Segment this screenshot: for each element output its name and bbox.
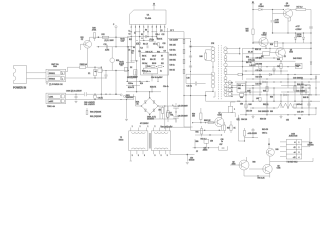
wire Q6 emitter <box>87 48 89 67</box>
wire selector to bridge <box>125 94 134 96</box>
wire startup low <box>97 46 135 48</box>
svg-text:B1: B1 <box>252 2 254 4</box>
svg-text:TB61 4A: TB61 4A <box>47 105 55 108</box>
wire bias v <box>194 139 196 148</box>
svg-text:+C17: +C17 <box>296 26 300 28</box>
diode D49 <box>305 90 307 92</box>
capacitor CY pair <box>94 94 95 95</box>
svg-text:C55: C55 <box>286 119 289 121</box>
svg-text:C13: C13 <box>163 43 166 45</box>
resistor R60 v <box>243 131 245 137</box>
svg-text:C32 10n: C32 10n <box>170 49 176 51</box>
svg-text:Q9: Q9 <box>277 165 279 167</box>
wire v253b <box>252 131 254 138</box>
svg-text:1u: 1u <box>132 53 134 55</box>
svg-text:R33 56K: R33 56K <box>170 59 177 61</box>
svg-text:1: 1 <box>140 126 141 128</box>
diode D46 <box>310 62 312 64</box>
svg-text:C8: C8 <box>128 50 130 52</box>
dots bias <box>194 147 195 148</box>
wire bottom rail <box>244 175 270 177</box>
svg-text:U4: U4 <box>302 87 304 89</box>
wire T1 tap3 <box>186 73 213 75</box>
wire line from inlet <box>27 72 47 74</box>
svg-text:3B3: 3B3 <box>270 111 273 113</box>
node top <box>252 9 253 10</box>
svg-text:C33 1n: C33 1n <box>170 64 175 66</box>
svg-text:R17 2.2: R17 2.2 <box>297 7 303 9</box>
svg-text:Q5: Q5 <box>290 49 292 51</box>
pin stubs bottom <box>130 25 132 29</box>
svg-text:T M SWD VSLI: T M SWD VSLI <box>287 162 298 164</box>
svg-text:6: 6 <box>139 26 140 28</box>
svg-text:4.7/50V: 4.7/50V <box>296 29 303 31</box>
svg-text:wd62: wd62 <box>49 101 54 103</box>
svg-text:1N4148: 1N4148 <box>189 159 195 161</box>
transistor Q7 <box>215 117 224 126</box>
wire drive bottom <box>195 134 222 136</box>
resistor R15 inline <box>252 29 254 35</box>
wire sec tap4 <box>226 66 249 68</box>
connector CN2 table <box>286 140 302 160</box>
svg-text:C5027: C5027 <box>262 35 267 37</box>
wire Q3 collector <box>289 9 291 11</box>
transistor Q6 <box>84 40 92 48</box>
svg-text:Q8: Q8 <box>232 162 234 164</box>
line filter FL601 <box>46 69 66 82</box>
rail right top <box>310 10 312 61</box>
svg-text:330: 330 <box>192 116 195 118</box>
svg-text:R22: R22 <box>102 34 105 36</box>
svg-text:C54 100: C54 100 <box>241 119 247 121</box>
diode D47 <box>315 77 317 79</box>
svg-text:2: 2 <box>161 126 162 128</box>
wire fb v2 <box>136 61 138 92</box>
thermistor TH1 <box>166 112 168 117</box>
T2 pins top <box>130 128 132 131</box>
wire fb stub <box>151 86 153 92</box>
svg-text:R50: R50 <box>270 97 273 99</box>
verticals output <box>245 82 247 115</box>
wires CN2 left <box>280 141 286 143</box>
svg-text:(C)4h 1u: (C)4h 1u <box>145 71 151 73</box>
svg-text:R6: R6 <box>159 110 161 112</box>
box R18 <box>274 41 277 46</box>
svg-text:C14 3A 1u/35V: C14 3A 1u/35V <box>151 76 163 79</box>
wire Q9 <box>249 168 263 170</box>
wire Q6 base <box>81 43 84 45</box>
svg-text:FR104: FR104 <box>258 6 263 8</box>
svg-text:C40: C40 <box>187 77 190 79</box>
svg-text:C9: C9 <box>164 51 166 53</box>
svg-text:R14: R14 <box>140 83 143 85</box>
wire positive rail down <box>164 106 166 129</box>
wire out rail 79 <box>246 78 316 80</box>
svg-text:1u: 1u <box>221 141 223 143</box>
svg-text:C42 470: C42 470 <box>256 70 262 72</box>
svg-text:R55: R55 <box>196 141 199 143</box>
wire bus right <box>161 31 165 33</box>
resistor R17 <box>296 9 306 11</box>
transistor Q9 <box>263 164 272 173</box>
fuse F601 <box>80 66 86 69</box>
wire bus 40 <box>140 40 154 42</box>
svg-text:C50: C50 <box>190 157 193 159</box>
svg-text:4Y 120V/1C: 4Y 120V/1C <box>140 123 149 125</box>
svg-text:4: 4 <box>299 157 300 159</box>
svg-text:L: L <box>62 78 63 80</box>
wire fb v3 <box>149 92 151 98</box>
svg-text:R45 15: R45 15 <box>303 97 309 99</box>
wire out v x302 <box>301 82 303 95</box>
svg-text:C57: C57 <box>220 144 223 146</box>
wire rail B <box>168 38 223 130</box>
wire primary return <box>205 91 207 95</box>
wire out rail 82 <box>235 81 320 83</box>
svg-text:POWER IN: POWER IN <box>13 86 26 90</box>
wire AC rail joins <box>101 94 102 95</box>
svg-text:(C) 2.2 100V: (C) 2.2 100V <box>105 40 115 42</box>
wire fb h2 <box>126 61 135 63</box>
wire out v 311 <box>310 60 312 75</box>
svg-text:R61 (OV)220K: R61 (OV)220K <box>90 116 102 118</box>
svg-text:D2: D2 <box>130 67 132 69</box>
wire fb h1 <box>130 60 138 62</box>
svg-text:D11: D11 <box>161 63 164 65</box>
wire Q3 base <box>282 13 284 15</box>
wire sec tap3 <box>226 60 247 62</box>
svg-text:R47 10: R47 10 <box>246 62 251 64</box>
wire diode to Q <box>262 9 283 11</box>
dots ac rail <box>109 94 110 95</box>
svg-text:R46: R46 <box>249 104 252 106</box>
svg-text:2A/600V: 2A/600V <box>147 118 155 121</box>
wire rail A <box>166 32 192 127</box>
svg-text:C5 470/200V: C5 470/200V <box>178 106 189 108</box>
cap C53 <box>307 103 310 105</box>
svg-text:R10 4.7K: R10 4.7K <box>146 51 154 53</box>
wire T1 tap2 box <box>205 53 207 59</box>
svg-text:150: 150 <box>246 31 249 33</box>
svg-text:C6 (Y): C6 (Y) <box>98 97 104 99</box>
pin bus ticks <box>130 31 132 33</box>
capacitor C21 <box>105 45 107 49</box>
wire out rail 108 <box>250 107 278 109</box>
svg-text:R57: R57 <box>227 128 230 130</box>
wire h141 <box>239 140 245 142</box>
transistor Q5 low <box>276 48 286 58</box>
svg-text:R8 4.7K: R8 4.7K <box>150 59 157 61</box>
wire bulk top <box>165 105 176 107</box>
wire out rail 95 ext <box>315 82 317 95</box>
wire fb h4 <box>126 91 161 93</box>
svg-text:C?: C? <box>196 151 198 153</box>
svg-text:R2 (?): R2 (?) <box>120 39 125 41</box>
resistor R58 hang <box>230 125 232 131</box>
svg-text:L44: L44 <box>256 98 259 100</box>
dots drive <box>192 122 193 123</box>
wire pin drops <box>130 28 132 36</box>
selector switch SW115/230 <box>120 94 122 96</box>
svg-text:1u: 1u <box>160 71 162 73</box>
svg-text:C51 470: C51 470 <box>246 110 252 112</box>
resistor R4 small <box>150 40 154 42</box>
wire h33 <box>273 32 312 34</box>
transformer T2 left box <box>129 131 148 151</box>
transformer T2 right box <box>151 131 170 151</box>
diode D8 D9 <box>294 37 296 40</box>
wire left col v <box>126 47 128 82</box>
varistor Z601 <box>94 67 95 68</box>
svg-text:(T) POWER ON: (T) POWER ON <box>49 84 63 86</box>
svg-text:SW601: SW601 <box>49 73 55 75</box>
svg-text:SUP: SUP <box>309 142 312 144</box>
diode D50v <box>249 90 251 92</box>
wire h43 <box>253 42 311 44</box>
wire neutral from inlet <box>27 78 47 80</box>
transistor Q4 mid <box>259 37 268 46</box>
wire fuse riser <box>66 67 80 71</box>
svg-text:R16 27K: R16 27K <box>150 87 157 89</box>
wire out rail 101 <box>238 100 320 102</box>
svg-text:R64 2.2K: R64 2.2K <box>258 177 266 179</box>
wire left bus stub <box>126 37 128 47</box>
svg-text:R53 150: R53 150 <box>260 119 266 121</box>
wire Q4 emitter collector <box>265 33 267 39</box>
wire bias h <box>193 147 213 149</box>
wire x136 bridge <box>134 71 136 76</box>
small boxes out extra <box>259 64 261 69</box>
wire line top <box>86 66 102 68</box>
wire h137 <box>245 137 259 139</box>
wire out rail 95 <box>248 94 320 96</box>
svg-text:C945: C945 <box>217 115 221 117</box>
wire neutral low <box>66 99 106 101</box>
wire terminal down <box>115 28 117 47</box>
svg-text:R15 47K: R15 47K <box>128 87 135 89</box>
wire out rail 66 ext <box>248 66 296 68</box>
wire AC rail top <box>106 93 120 95</box>
bridge rectifier BD601 <box>141 98 158 115</box>
svg-text:R42 270: R42 270 <box>256 77 262 79</box>
wire gnd bottom right <box>270 161 313 163</box>
wire aux stub <box>100 67 102 94</box>
svg-text:22: 22 <box>284 56 286 58</box>
wire x116 down <box>115 71 117 95</box>
wire out rail 92 <box>240 91 262 93</box>
wire out v x288 low <box>287 95 289 108</box>
svg-text:C61 .01/1KV: C61 .01/1KV <box>84 104 95 106</box>
svg-text:C6 47: C6 47 <box>152 55 156 57</box>
svg-text:C62 1n: C62 1n <box>262 133 267 135</box>
resistor R606 bleeder <box>167 111 169 117</box>
wire T2 stub right2 <box>187 154 194 156</box>
svg-text:1: 1 <box>299 142 300 144</box>
svg-text:R16 2.2: R16 2.2 <box>255 49 261 51</box>
diode D7 <box>259 8 262 11</box>
resistor R60 sym <box>86 111 88 115</box>
wire bus 36 <box>127 36 156 38</box>
svg-text:R52 2.2: R52 2.2 <box>201 139 207 141</box>
box regulator U4 <box>301 85 311 95</box>
wire out rail 74 <box>253 74 320 76</box>
small syms fb box <box>151 66 155 68</box>
wire aux h <box>102 70 128 72</box>
node bold <box>268 143 270 145</box>
svg-text:C5027: C5027 <box>285 5 290 7</box>
transformer T1 core <box>218 45 220 100</box>
svg-text:C945: C945 <box>277 167 281 169</box>
resistor R50 <box>200 113 202 120</box>
wire sec tap6 <box>226 82 233 84</box>
resistor R56 base <box>208 122 214 124</box>
capacitor C16 <box>272 14 274 21</box>
svg-text:C21: C21 <box>104 44 107 46</box>
svg-text:wd61: wd61 <box>49 96 54 98</box>
wire bridge feed <box>134 97 142 106</box>
resistor R51 below <box>201 129 203 135</box>
connector J1 AC inlet <box>14 66 27 84</box>
svg-text:TL494: TL494 <box>145 18 152 20</box>
svg-text:4u: 4u <box>95 71 97 73</box>
box D42 <box>240 93 244 96</box>
wire mid return <box>184 95 206 97</box>
gnd out b <box>280 116 283 118</box>
capacitor CX601 <box>66 93 85 95</box>
small rects out <box>259 98 261 102</box>
box feedback outline <box>141 53 169 76</box>
wire T2 out right <box>170 154 187 156</box>
svg-text:1: 1 <box>132 126 133 128</box>
svg-text:L: L <box>62 73 63 75</box>
svg-text:C41 1u: C41 1u <box>187 86 193 88</box>
svg-text:R12: R12 <box>129 39 132 41</box>
svg-text:1n: 1n <box>134 32 136 34</box>
wire T2 pin down <box>130 154 132 161</box>
wire to diode <box>253 9 258 11</box>
svg-text:R49: R49 <box>263 91 266 93</box>
resistor R24 <box>98 69 102 72</box>
svg-text:12: 12 <box>153 3 155 5</box>
wire bridge right <box>158 105 165 107</box>
svg-text:R23: R23 <box>116 60 119 62</box>
wire AC low to bridge <box>106 97 134 100</box>
svg-text:-12: -12 <box>293 147 295 149</box>
cap C48 <box>272 68 275 70</box>
svg-text:R1: R1 <box>141 34 143 36</box>
svg-text:R31 12K: R31 12K <box>170 44 177 46</box>
terminal B+ top <box>252 3 255 5</box>
wire out rail 61 ext <box>246 60 296 62</box>
svg-text:R32 4.7K: R32 4.7K <box>170 54 178 56</box>
ground ac mid <box>126 100 128 119</box>
svg-text:C31 1u/35V: C31 1u/35V <box>170 39 179 41</box>
wire Q7 emitter <box>221 126 223 131</box>
svg-text:TH1: TH1 <box>170 115 173 117</box>
svg-text:D10: D10 <box>142 59 145 61</box>
svg-text:L43 5uH: L43 5uH <box>296 104 303 106</box>
svg-text:3: 3 <box>132 155 133 157</box>
svg-text:R48: R48 <box>277 59 280 61</box>
wire Q8 <box>243 170 245 176</box>
wire sec tap9 <box>226 95 233 97</box>
wire corner <box>231 102 236 106</box>
small boxes output <box>252 61 254 66</box>
node startup <box>98 36 100 38</box>
wire v to node <box>268 138 270 144</box>
svg-text:7805: 7805 <box>302 91 306 93</box>
wire T2 sense drop <box>186 155 188 162</box>
extra syms pin cluster <box>137 43 141 45</box>
wire out rail1 <box>243 47 312 49</box>
svg-text:C50: C50 <box>240 104 243 106</box>
resistor R22 <box>102 36 109 38</box>
svg-text:C4 1n: C4 1n <box>153 44 157 46</box>
svg-text:R3: R3 <box>133 47 135 49</box>
wire out rail 115 <box>240 114 316 116</box>
wire Q4 base <box>253 41 259 43</box>
resistor R605 bleeder <box>162 106 164 107</box>
svg-text:EE16: EE16 <box>119 139 123 141</box>
box aux <box>134 70 137 75</box>
box aux2 <box>125 67 128 71</box>
wire Q7 collector <box>221 113 223 119</box>
node bulk mid <box>175 111 176 112</box>
svg-text:SBL: SBL <box>238 88 241 90</box>
diode D52 <box>238 118 240 120</box>
bracket C57 <box>219 146 228 150</box>
svg-text:2: 2 <box>299 147 300 149</box>
line filter FL602 <box>46 93 66 104</box>
svg-text:+5: +5 <box>294 152 296 154</box>
svg-text:R3 (?): R3 (?) <box>119 62 124 64</box>
wire bridge top <box>149 92 151 98</box>
box bias <box>204 139 209 143</box>
op-amp U1 TL494 box <box>130 10 167 25</box>
wire bias r <box>213 147 219 149</box>
capacitor C2 small <box>144 35 146 38</box>
svg-text:R12 (?) 2.2M: R12 (?) 2.2M <box>127 77 137 79</box>
diode D30 <box>238 73 243 76</box>
svg-text:-5: -5 <box>294 142 296 144</box>
svg-text:C45 470: C45 470 <box>297 111 303 113</box>
svg-text:C46 1000/16V: C46 1000/16V <box>258 111 270 113</box>
box out rail2 <box>263 52 270 56</box>
svg-text:3: 3 <box>161 155 162 157</box>
svg-text:R50: R50 <box>192 114 195 116</box>
extra out dots 2 <box>242 61 243 62</box>
svg-text:C/mF: C/mF <box>121 40 125 42</box>
wire startup h <box>98 36 116 38</box>
svg-text:+C61 47/16V: +C61 47/16V <box>248 133 258 135</box>
svg-text:C14 4h: C14 4h <box>163 86 169 88</box>
svg-text:R2 4.7: R2 4.7 <box>143 43 148 45</box>
svg-text:1n: 1n <box>129 30 131 32</box>
wire fb h3 <box>126 80 150 82</box>
dots out extra <box>242 74 243 75</box>
svg-text:R60 (OV)220K: R60 (OV)220K <box>90 112 102 114</box>
svg-text:R62 470: R62 470 <box>262 129 268 131</box>
wire drive h <box>193 122 215 124</box>
svg-text:4: 4 <box>160 26 161 28</box>
wire vert D52 ext <box>238 124 240 141</box>
svg-text:115/230V: 115/230V <box>126 97 134 99</box>
svg-text:D44 SB: D44 SB <box>256 83 263 85</box>
svg-text:3: 3 <box>299 152 300 154</box>
svg-text:R11 4: R11 4 <box>156 34 160 36</box>
svg-text:4n/BZ: 4n/BZ <box>105 49 109 51</box>
svg-text:R56 2.2K: R56 2.2K <box>204 120 211 122</box>
